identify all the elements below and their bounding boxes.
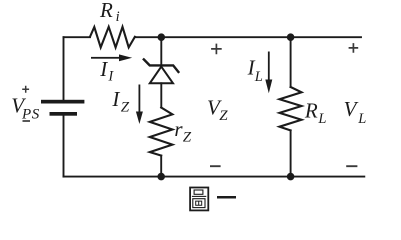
svg-text:R: R — [304, 99, 318, 123]
plus sign mid top — [211, 44, 222, 55]
svg-text:i: i — [116, 9, 120, 25]
minus sign battery — [23, 120, 31, 122]
zener diode cathode bar with bent ends — [144, 59, 179, 72]
wire top rail left segment — [64, 36, 91, 38]
node dot bottom R_L branch — [287, 173, 295, 181]
wire zener branch top — [160, 37, 162, 64]
svg-text:R: R — [99, 0, 113, 22]
node dot top zener branch — [158, 33, 166, 41]
plus sign battery — [22, 86, 29, 93]
wire R_L to bottom rail — [290, 130, 292, 176]
svg-text:I: I — [99, 57, 108, 81]
svg-text:Z: Z — [219, 108, 228, 124]
svg-text:Z: Z — [121, 99, 130, 115]
svg-text:I: I — [111, 87, 120, 111]
plus sign right top — [349, 43, 359, 53]
svg-text:V: V — [344, 97, 359, 121]
zener diode triangle — [150, 67, 173, 84]
svg-text:L: L — [254, 69, 263, 85]
svg-text:I: I — [107, 68, 114, 84]
node dot bottom zener branch — [157, 173, 165, 181]
wire zener to r_Z — [160, 83, 162, 107]
node dot top R_L branch — [287, 33, 295, 41]
wire left vertical upper — [63, 37, 65, 100]
svg-text:L: L — [317, 111, 326, 127]
svg-text:Z: Z — [183, 129, 192, 145]
resistor R_i — [90, 27, 135, 48]
caption character 一 — [217, 196, 236, 199]
wire top rail right segment — [135, 36, 361, 38]
resistor r_Z — [150, 108, 173, 156]
wire R_L branch top — [290, 37, 292, 87]
svg-text:L: L — [357, 111, 366, 127]
caption character 圖 — [190, 188, 208, 211]
current arrow I_L — [265, 52, 272, 94]
minus sign mid bottom — [210, 165, 221, 167]
wire bottom rail — [64, 176, 365, 178]
svg-text:PS: PS — [21, 106, 40, 122]
battery V_PS top plate — [41, 100, 84, 104]
current arrow I_I — [91, 54, 132, 61]
current arrow I_Z — [136, 85, 143, 125]
minus sign right bottom — [346, 165, 357, 167]
wire left vertical lower — [63, 116, 65, 177]
resistor R_L — [280, 87, 302, 130]
wire r_Z to bottom rail — [160, 156, 162, 177]
battery V_PS bottom plate — [50, 112, 78, 116]
